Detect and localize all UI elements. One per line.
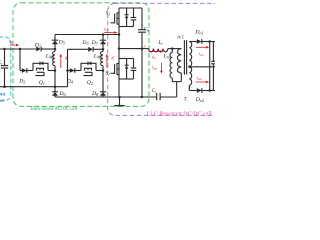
node S2 bottom rail [118, 96, 121, 99]
wire to Do2 [189, 90, 197, 92]
wire node to primary [172, 48, 181, 50]
snubber cap S2 [133, 59, 135, 68]
wire D3 to node B [93, 48, 103, 50]
wire cell2 to node B [96, 70, 103, 72]
svg-text:Input: Input [0, 92, 6, 98]
wire return rail [0, 86, 68, 88]
node A mid [54, 69, 57, 72]
body diode S2 [126, 59, 128, 66]
transformer primary [177, 49, 181, 73]
diode D2 [22, 68, 27, 73]
inductor LM2 [102, 49, 104, 51]
wire D7 anode [102, 44, 104, 49]
svg-text:Do1: Do1 [194, 30, 203, 36]
node cap bottom [3, 85, 6, 88]
diode D1 [36, 47, 41, 52]
node A top [54, 48, 57, 51]
svg-text:LLC Resonant DC/DC cell: LLC Resonant DC/DC cell [147, 112, 212, 118]
wire to D6 [54, 87, 56, 92]
node switch mid [118, 47, 121, 50]
top rail [119, 7, 142, 9]
mid rail to CB [119, 48, 142, 50]
wire D7 top [102, 35, 104, 41]
wire D8 to bottom rail [102, 95, 104, 97]
wire node A down [54, 71, 56, 87]
ground [119, 97, 121, 105]
node CB column bottom [141, 96, 144, 99]
wire D6 to bottom rail [54, 95, 56, 97]
S1 bottom wire [119, 26, 134, 28]
snubber cap S1 [133, 8, 135, 17]
svg-text:n:1: n:1 [177, 35, 184, 40]
capacitor Cf [4, 49, 6, 65]
svg-text:LM2: LM2 [93, 54, 103, 60]
red arrow i_B [104, 32, 114, 34]
svg-text:Lr: Lr [157, 40, 163, 46]
diode D8 [100, 91, 106, 93]
primary-Lm joint [172, 81, 181, 83]
svg-text:D7: D7 [91, 40, 99, 46]
transformer core [183, 40, 185, 74]
diode Do2 [197, 88, 202, 93]
svg-text:D8: D8 [91, 91, 98, 97]
wire node B down [102, 71, 104, 92]
wire cell2 riser [67, 49, 69, 86]
wire CB column down [141, 49, 143, 97]
svg-text:D1: D1 [34, 43, 41, 49]
wire input top rail [0, 48, 36, 50]
inductor LM1 [54, 49, 56, 52]
diode D5 [52, 39, 58, 41]
output column [209, 42, 211, 91]
rail B [55, 34, 119, 36]
wire cell1 to node [48, 70, 55, 72]
wire D5 top [54, 35, 56, 41]
svg-text:Q1: Q1 [39, 80, 45, 86]
red arrow i_LM2 [106, 57, 108, 68]
bottom rail left [55, 96, 157, 98]
wire to Do1 [189, 41, 197, 43]
node out bottom [208, 89, 211, 92]
svg-text:LM1: LM1 [45, 54, 55, 60]
LLC Resonant DC/DC box (purple dashed, clipped right) [108, 3, 228, 115]
inductor Lm [171, 49, 173, 53]
body diode S1 [126, 8, 128, 15]
svg-text:D6: D6 [58, 91, 66, 97]
Buck-Boost AC/DC cell box (green dashed) [13, 3, 149, 107]
wire Lr to node [168, 48, 173, 50]
red arrow i_o1 [196, 46, 206, 48]
wire D5 anode [54, 44, 56, 49]
node input cap top [3, 48, 6, 51]
wire cell1 drop [19, 49, 21, 71]
node B low [102, 69, 105, 72]
wire Do2 out [202, 90, 215, 92]
mosfet Q2 [81, 63, 96, 70]
svg-text:Do2: Do2 [195, 97, 204, 103]
capacitor Cr [156, 93, 158, 100]
mosfet Q1 [33, 63, 48, 70]
node A return [54, 85, 57, 88]
wire rail A after D1 [41, 48, 55, 50]
svg-text:D4: D4 [66, 79, 73, 85]
wire to Lr [142, 48, 149, 50]
node cell1 tap [19, 48, 22, 51]
node cell2 tap [66, 69, 69, 72]
center tap wire [189, 66, 215, 68]
svg-text:D3: D3 [81, 40, 88, 46]
mosfet S2 [118, 59, 120, 98]
diode D4 [70, 68, 75, 73]
diode D7 [100, 39, 106, 41]
node out top [208, 40, 211, 43]
svg-text:Q2: Q2 [87, 80, 93, 86]
svg-text:D5: D5 [58, 40, 65, 46]
transformer secondary [189, 42, 191, 86]
S2 bottom wire [119, 78, 134, 80]
label i_LM1 [64, 56, 69, 61]
node center tap [188, 66, 191, 69]
diode D3 [88, 47, 93, 52]
wire Do1 out [202, 41, 215, 43]
svg-text:Back-Boost AC/DC cell: Back-Boost AC/DC cell [31, 107, 78, 112]
label i_LM2 [110, 56, 115, 61]
diode Do1 [197, 39, 202, 44]
svg-text:D2: D2 [18, 79, 25, 85]
capacitor CB [141, 8, 143, 29]
mosfet S1 [118, 8, 120, 59]
bottom rail right [160, 96, 177, 98]
input filter box (cyan dashed, clipped left) [0, 37, 11, 101]
svg-text:Cr: Cr [152, 89, 157, 94]
S2 top wire [119, 58, 134, 60]
red arrow i_o2 [196, 81, 206, 83]
capacitor Co (clipped) [212, 42, 214, 62]
node B mid [102, 48, 105, 51]
diode D6 [52, 91, 58, 93]
red arrow i_Lm [160, 63, 162, 71]
node CB bottom [141, 47, 144, 50]
wire cell1 [20, 70, 33, 72]
inductor Lr [149, 49, 168, 52]
red arrow i_Lr [150, 50, 160, 52]
node tank [171, 47, 174, 50]
svg-text:CB: CB [144, 28, 150, 33]
node B top [102, 33, 105, 36]
svg-text:Lm: Lm [162, 54, 169, 60]
node rail B to bridge [118, 33, 121, 36]
cell2 top rail [68, 48, 89, 50]
wire cell2 [68, 70, 82, 72]
red arrow i_in [10, 44, 16, 46]
red arrow i_LM1 [60, 57, 62, 68]
